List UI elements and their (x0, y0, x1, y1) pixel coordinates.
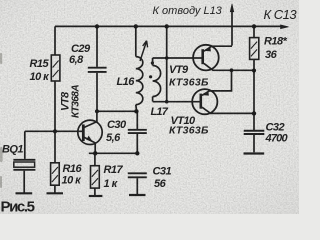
node: VT8 emitter / R17 (93, 151, 97, 155)
wire: top supply rail (55, 25, 282, 27)
resistor R16 (51, 163, 60, 185)
emitter (top, PNP arrow into base) (202, 70, 232, 95)
polarity dot (upper) (151, 61, 154, 64)
resistor R18 (250, 26, 259, 59)
capacitor C32 (244, 131, 265, 153)
node: R15 / R16 / base line (53, 129, 57, 133)
ground (R17) (89, 195, 103, 197)
inductor L16 (136, 26, 143, 111)
inductor L17 (secondary) (153, 58, 161, 102)
wire: left column down from rail to R15 (54, 26, 56, 55)
node: rail / L16 (134, 24, 138, 28)
capacitor C30 (128, 111, 147, 153)
node: C29 / VT8 collector (95, 109, 99, 113)
wire: VT9 emitter up to К отводу L13 arrow (231, 10, 233, 46)
ground (BQ1) (16, 192, 33, 194)
ground (R16) (47, 192, 64, 194)
crystal BQ1 (13, 131, 35, 192)
capacitor C31 (128, 173, 147, 194)
node: secondary bottom (165, 100, 169, 104)
node: right column upper (252, 68, 256, 72)
ground (C31) (129, 194, 146, 196)
scan artifacts (0, 53, 3, 188)
node: rail / secondary feed (165, 24, 169, 28)
wire: BQ1 to VT8 base horizontal (25, 130, 83, 132)
collector (bottom) (202, 107, 254, 113)
collector (bottom) (204, 63, 254, 70)
polarity dot (lower) (149, 75, 152, 78)
wire: collector node horizontal (97, 110, 137, 112)
node: secondary top (165, 56, 169, 60)
wire: junction down to R16 (54, 131, 56, 163)
node: VT9 collector / VT10 emitter (230, 68, 234, 72)
node: right column lower (252, 111, 256, 115)
transistor VT10 (192, 70, 254, 114)
wire: VT8 emitter node horizontal (89, 152, 138, 154)
emitter (top, PNP arrow into base) (204, 46, 232, 51)
wire: right column (253, 59, 255, 130)
wire: R15 bottom to base-line junction (54, 81, 56, 131)
transistor VT9 (193, 45, 254, 71)
transistor VT8 (78, 111, 102, 153)
ground (C32) (244, 152, 265, 154)
variable-coupling arrow on transformer (140, 41, 147, 61)
wire arrow К С13 (right end of rail) (281, 25, 289, 29)
wire: L17 top to VT9 base (153, 57, 203, 59)
capacitor C29 (88, 26, 107, 111)
node: L16 / C30 (134, 109, 138, 113)
emitter lead down with NPN arrow (84, 137, 95, 153)
wire: L17 bottom to VT10 base (153, 101, 201, 103)
node: C30 / C31 (135, 151, 139, 155)
node: rail / C29 (95, 24, 99, 28)
node: rail / R18 (252, 24, 256, 28)
wire: rail down to secondary (166, 26, 168, 101)
collector lead up (84, 111, 97, 127)
resistor R17 (91, 153, 100, 195)
resistor R15 (51, 55, 60, 81)
